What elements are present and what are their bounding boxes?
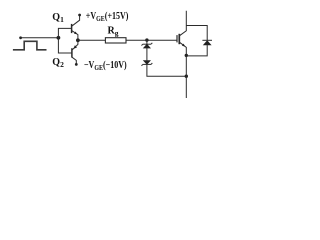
wire between zeners (146, 48, 148, 61)
wire output to Rg (78, 39, 106, 41)
zener diode Z2 (142, 60, 153, 66)
node base-bus junction (57, 36, 61, 40)
wire Rg to gate (126, 39, 177, 41)
node gate junction (145, 38, 148, 41)
wire collector to diode cathode (186, 26, 207, 41)
IGBT VT (177, 11, 186, 56)
transistor Q2 (72, 40, 78, 63)
transistor Q1 (72, 16, 80, 40)
input pulse waveform (13, 41, 47, 50)
resistor Rg (105, 38, 126, 43)
zener diode Z1 (142, 43, 153, 49)
-VGE terminal dot (75, 63, 78, 66)
wire input to base bus (21, 37, 59, 39)
wire diode anode to emitter (186, 45, 207, 56)
wire emitter rail down (185, 55, 187, 98)
node driver output (76, 38, 80, 42)
wire zener to emitter rail (147, 64, 186, 76)
node emitter-diode junction (185, 54, 188, 57)
wire gate junction down (146, 40, 148, 44)
freewheeling diode VD (202, 40, 212, 45)
wire base bus (58, 28, 72, 53)
node emitter-zener junction (185, 75, 188, 78)
input terminal dot (19, 36, 22, 39)
+VGE terminal dot (78, 14, 81, 17)
